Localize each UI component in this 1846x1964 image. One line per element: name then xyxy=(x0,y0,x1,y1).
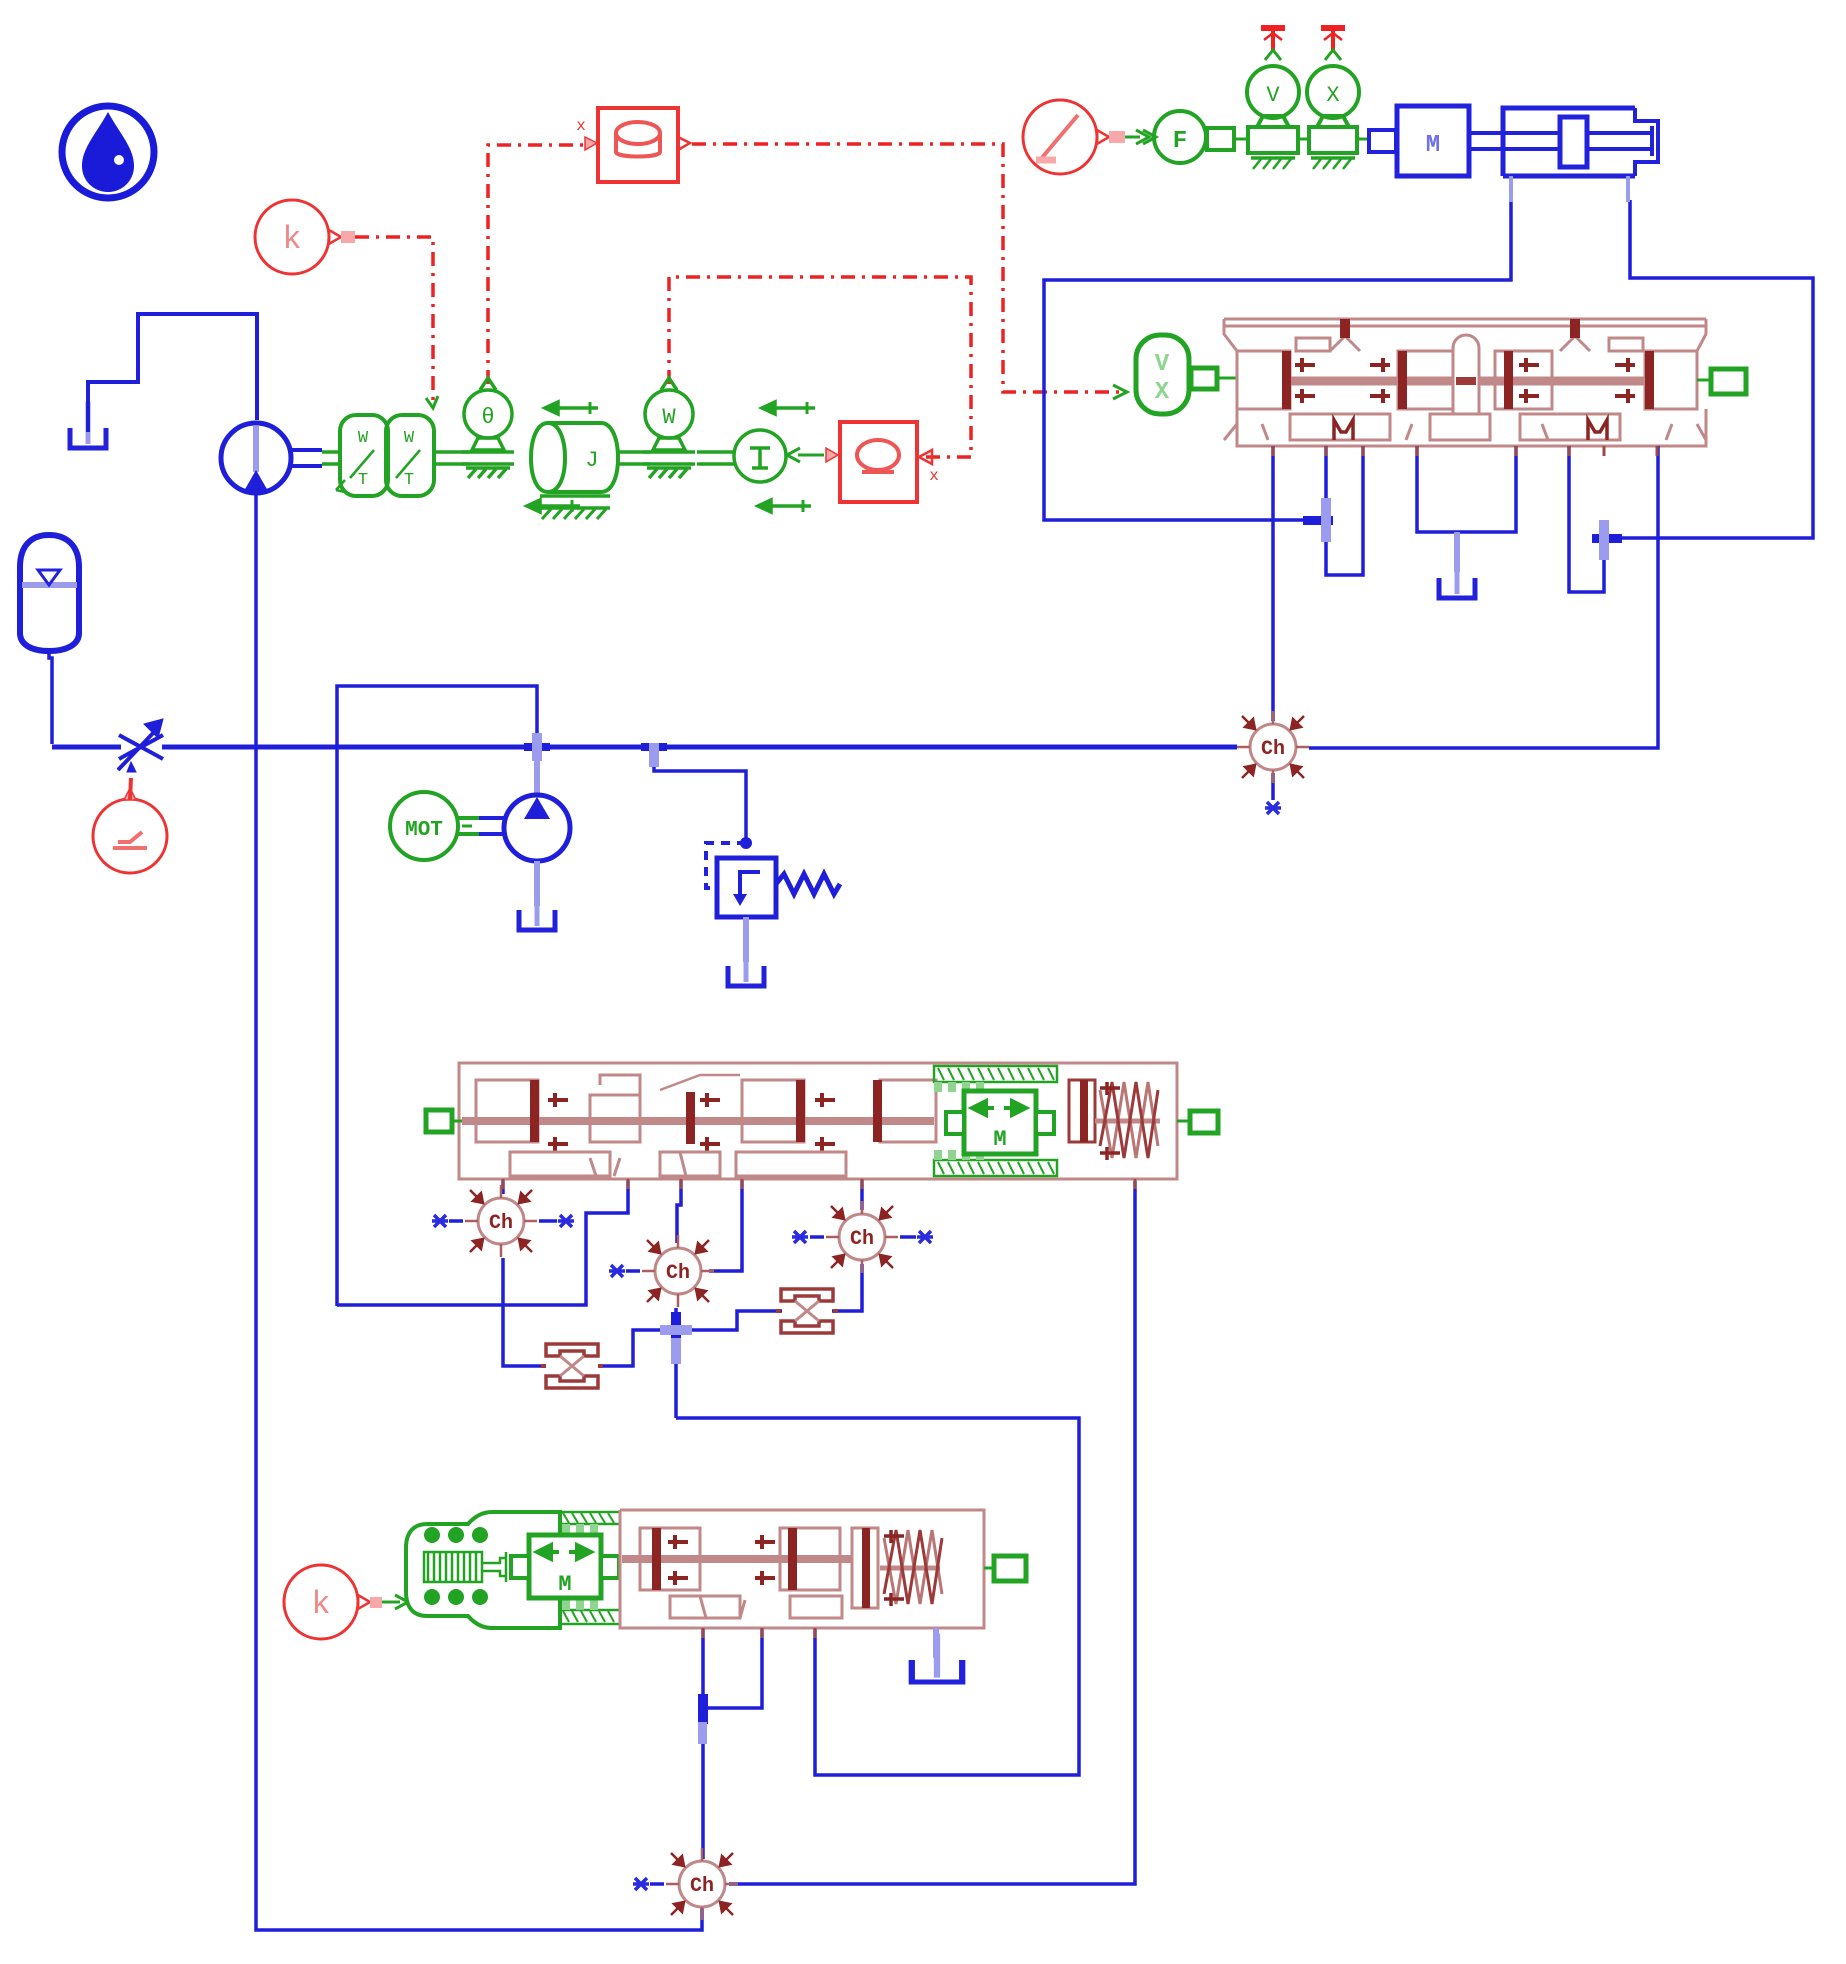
svg-text:W: W xyxy=(404,429,415,448)
plug X left of Ch4 xyxy=(792,1231,824,1243)
svg-text:k: k xyxy=(282,221,301,258)
red zero source T1 xyxy=(1261,28,1285,52)
hydraulic pump P1 xyxy=(221,423,322,494)
tank T5 under valve V3 xyxy=(912,1628,962,1682)
wire stub light cylinder left xyxy=(1509,176,1513,202)
junction J5 middle xyxy=(660,1312,692,1364)
wire valve1 U middle xyxy=(1417,446,1516,532)
svg-text:T: T xyxy=(404,471,414,490)
link F to mass port xyxy=(1207,128,1248,150)
hydraulic pump P2 xyxy=(479,747,570,930)
svg-text:W: W xyxy=(358,429,369,448)
svg-text:V: V xyxy=(1266,83,1280,108)
plug X left of Ch3 xyxy=(609,1265,640,1277)
svg-text:W: W xyxy=(662,405,676,430)
plug X left of Ch5 xyxy=(633,1878,664,1890)
piston mass block M xyxy=(1397,106,1469,176)
wire Ch5 to middle valve right port xyxy=(729,1181,1135,1884)
red zero source T2 xyxy=(1321,28,1345,52)
angle sensor theta xyxy=(462,378,514,478)
mass M1 xyxy=(1248,127,1298,169)
position sensor X on mass2 xyxy=(1307,50,1359,127)
wire cylinder head-side down xyxy=(1608,200,1813,538)
bottom valve V3 spool body xyxy=(620,1510,984,1628)
wire valve1 port to chamber Ch1 xyxy=(1271,446,1275,721)
wire Ch2 bottom to orifice O1 xyxy=(503,1258,546,1366)
valve V2 right rod port xyxy=(1177,1111,1218,1133)
orifice O1 xyxy=(541,1344,603,1388)
shaft clutch to theta mount xyxy=(434,452,470,464)
wire cylinder rod-side down xyxy=(1044,200,1511,520)
wire valve1 U right xyxy=(1569,446,1604,592)
signal wire f(x) right to torque source xyxy=(798,454,824,457)
svg-text:M: M xyxy=(993,1127,1006,1152)
svg-text:V: V xyxy=(1155,351,1170,378)
accumulator xyxy=(20,535,79,651)
force source F xyxy=(1154,111,1206,163)
tank T2 under valve1 xyxy=(1439,532,1475,598)
wire middle valve port C to Ch3 right xyxy=(709,1179,742,1271)
chamber Ch2 xyxy=(465,1185,537,1257)
wire middle valve port B to Ch3 xyxy=(677,1179,681,1243)
valve V2 spring section xyxy=(1069,1080,1160,1160)
svg-text:X: X xyxy=(1155,379,1170,406)
wire Ch3 bottom to junction J5 xyxy=(674,1308,678,1418)
function block f(x) right xyxy=(826,422,939,502)
signal wire k1 to clutch xyxy=(355,237,433,400)
wire orifice O2 to Ch4 bottom xyxy=(832,1264,862,1311)
signal constant k3 (orifice control) xyxy=(93,778,167,873)
signal wire W sensor to f(x) right xyxy=(669,277,971,457)
wire middle valve port A to bus loop xyxy=(337,1179,628,1305)
wire pump1 suction line xyxy=(256,494,702,1930)
valve port stubs xyxy=(503,446,1657,1638)
hydraulic cylinder (jack) xyxy=(1469,108,1658,176)
variable orifice blue xyxy=(118,719,163,772)
wire middle valve port D to Ch4 top xyxy=(860,1179,864,1210)
inertia J xyxy=(531,423,618,519)
chamber Ch4 xyxy=(826,1201,898,1273)
svg-text:x: x xyxy=(576,117,586,135)
junction J1 bus/pi-loop xyxy=(524,733,550,761)
signal wire theta sensor to f(x) xyxy=(488,145,584,384)
tank T1 top left xyxy=(70,402,106,448)
bottom valve V3 solenoid housing xyxy=(406,1512,560,1628)
rotary arrows left pair xyxy=(527,402,598,512)
svg-text:M: M xyxy=(1426,132,1440,159)
plug X under Ch1 xyxy=(1265,773,1281,814)
wire bottom valve ports to junction J6 xyxy=(703,1628,762,1859)
svg-text:F: F xyxy=(1173,128,1187,155)
shaft W to torque source xyxy=(697,452,734,464)
wire stub light cylinder right xyxy=(1626,176,1630,202)
fluid properties icon xyxy=(62,106,154,198)
valve V2 electro section green xyxy=(934,1066,1057,1176)
function block f(x) top xyxy=(576,108,690,182)
valve V2 left rod port xyxy=(426,1110,462,1132)
svg-text:θ: θ xyxy=(481,405,494,430)
junction J3 valve1 left xyxy=(1303,498,1333,542)
wire orifice O1 to junction J5 xyxy=(598,1330,678,1366)
wire Ch1 to valve1 right port xyxy=(1309,446,1658,748)
svg-text:MOT: MOT xyxy=(405,819,443,842)
chamber Ch3 xyxy=(642,1235,714,1307)
plug X right of Ch2 xyxy=(539,1215,574,1227)
wire accumulator to bus xyxy=(49,651,52,744)
wire bus to relief valve xyxy=(654,747,746,842)
svg-text:x: x xyxy=(929,467,939,485)
junction J2 bus/relief xyxy=(641,743,667,767)
wire junction J5 to orifice O2 xyxy=(676,1311,782,1330)
plug X right of Ch4 xyxy=(900,1231,933,1243)
rotary arrows right pair xyxy=(758,402,815,512)
svg-text:T: T xyxy=(358,471,368,490)
directional valve V1 (4-land spool) xyxy=(1224,319,1706,446)
velocity sensor V on mass1 xyxy=(1247,50,1299,127)
wire pump suction loop to tank xyxy=(88,314,257,432)
svg-text:J: J xyxy=(585,448,598,473)
signal wire f(x) to VX transducer xyxy=(692,144,1120,392)
wire valve1 U left xyxy=(1326,446,1363,575)
clutch W/T xyxy=(336,415,434,496)
port mass2 to piston mass xyxy=(1369,130,1396,152)
svg-text:k: k xyxy=(311,1586,330,1623)
torque source T xyxy=(734,430,786,482)
wire junction J5 to bottom valve right port xyxy=(676,1418,1079,1775)
shaft pump to clutch xyxy=(322,452,342,464)
valve V3 green hatch + M motor xyxy=(511,1512,620,1624)
wire middle valve port to Ch2 top xyxy=(501,1179,505,1194)
middle valve V2 spool xyxy=(459,1063,1177,1179)
plug X left of Ch2 xyxy=(432,1215,463,1227)
pressure relief valve xyxy=(706,837,840,986)
prime mover MOT xyxy=(390,792,479,860)
mass M2 xyxy=(1298,127,1369,169)
signal constant k2 (solenoid control) xyxy=(284,1565,408,1639)
valve V1 output rod port xyxy=(1697,369,1746,394)
VX transducer xyxy=(1136,335,1240,414)
signal constant k1 xyxy=(255,200,355,274)
wire main bus xyxy=(52,745,1237,750)
valve V3 right rod port xyxy=(984,1556,1026,1581)
svg-text:X: X xyxy=(1326,83,1339,108)
chamber Ch5 xyxy=(666,1848,738,1920)
orifice O2 xyxy=(776,1289,838,1333)
wire pi loop to middle valve xyxy=(337,686,537,1306)
speed sensor W xyxy=(643,378,695,478)
chamber Ch1 xyxy=(1237,711,1309,783)
svg-text:M: M xyxy=(558,1572,571,1597)
junction J6 bottom valve xyxy=(698,1694,708,1744)
signal source ramp xyxy=(1023,100,1156,174)
junction J4 valve1 right xyxy=(1592,520,1622,560)
shaft J to W mount xyxy=(618,452,650,464)
